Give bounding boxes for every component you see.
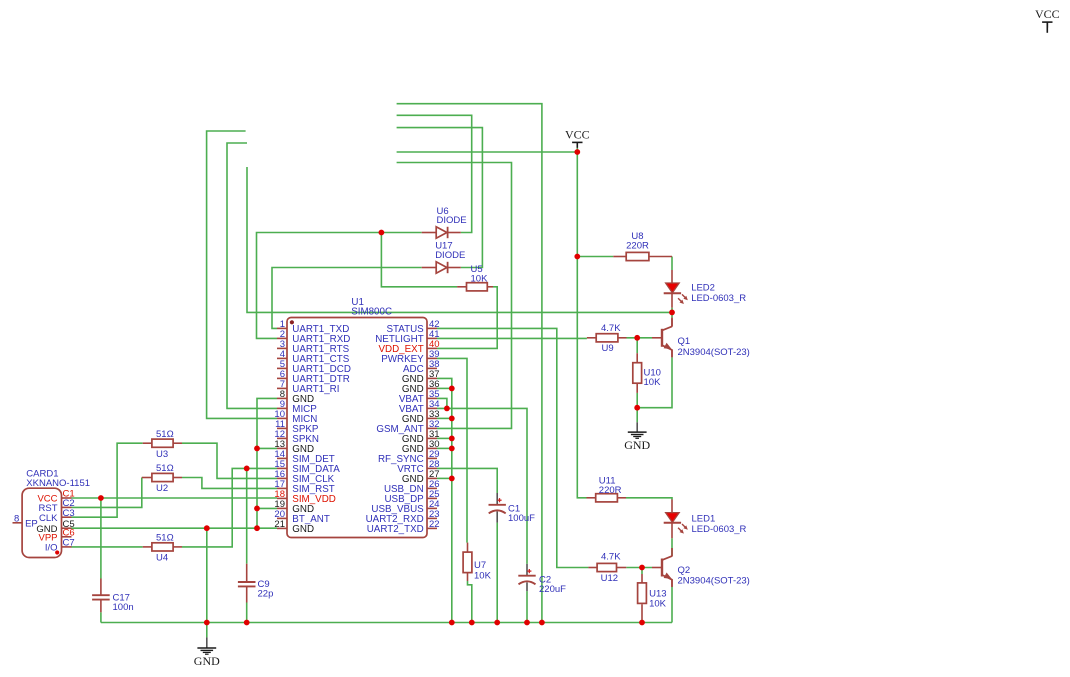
node GND C5 row left bbox=[204, 525, 210, 531]
wire Q2 base node down to U13 bbox=[641, 568, 643, 575]
IC U1 SIM800C body bbox=[287, 318, 427, 538]
transistor Q2 2N3904 bbox=[671, 555, 673, 558]
wire long horizontal net to LED2 cathode bbox=[247, 167, 672, 312]
wire C9 bottom to bus bbox=[246, 603, 248, 623]
U1 pin 38 ADC bbox=[427, 367, 437, 369]
U1 pin 18 SIM_VDD bbox=[277, 497, 287, 499]
wire VCC rail down to U11 row bbox=[577, 148, 586, 498]
wire U10 bottom to emitter node bbox=[636, 393, 638, 408]
wire U17 cathode up to open end H3 bbox=[397, 128, 483, 268]
wire pin13 GND stub bbox=[257, 447, 277, 449]
CARD1 pin C2 RST bbox=[62, 506, 72, 508]
wire ground bus bottom bbox=[101, 622, 672, 624]
svg-text:GND: GND bbox=[194, 654, 220, 668]
U1 pin 12 SPKN bbox=[277, 437, 287, 439]
wire pin30 GND bbox=[437, 447, 452, 449]
node bus/GND chain bbox=[449, 620, 455, 626]
node bus/U13 bbox=[639, 620, 645, 626]
resistor U3 51ohm bbox=[143, 442, 152, 444]
svg-text:VCC: VCC bbox=[565, 127, 590, 141]
U1 pin 32 GSM_ANT bbox=[427, 427, 437, 429]
wire LED1 cathode to Q2 collector bbox=[671, 538, 673, 556]
wire card RST C2 row up to U2 bbox=[72, 478, 142, 508]
CARD1 pin C1 VCC bbox=[62, 497, 72, 499]
wire GND vertical pins 8 13 19 to C5 row bbox=[257, 398, 277, 528]
svg-text:220R: 220R bbox=[626, 241, 649, 252]
connector CARD1 XKNANO-1151 body bbox=[22, 488, 61, 557]
capacitor C17 100n bbox=[100, 579, 102, 596]
svg-text:EP: EP bbox=[25, 518, 38, 529]
wire GND column down to bus and symbol bbox=[206, 528, 208, 622]
node LED2 cathode/Q1 collector bbox=[669, 310, 675, 316]
U1 pin 39 PWRKEY bbox=[427, 357, 437, 359]
wire Q1 emitter to ground node bbox=[637, 357, 672, 408]
wire card I/O C7 row to U4 bbox=[72, 546, 143, 548]
svg-text:22p: 22p bbox=[258, 589, 274, 600]
wire U11 right to LED1 anode bbox=[626, 498, 672, 500]
CARD1 pin C5 GND bbox=[62, 527, 72, 529]
resistor U4 51ohm bbox=[143, 546, 152, 548]
U1 pin 41 NETLIGHT bbox=[427, 337, 437, 339]
node GND pin13 bbox=[254, 446, 260, 452]
U1 pin 27 GND bbox=[427, 477, 437, 479]
CARD1 pin C7 I/O bbox=[62, 546, 72, 548]
wire U2 right to pin17 SIM_RST bbox=[182, 478, 277, 489]
U1 pin 23 UART2_RXD bbox=[427, 517, 437, 519]
svg-text:Q1: Q1 bbox=[678, 336, 691, 347]
resistor U9 4.7K bbox=[587, 337, 596, 339]
wire VBAT rail pin34 to capacitor C2 bbox=[437, 408, 527, 564]
wire pin33 GND bbox=[437, 417, 452, 419]
wire pin41 NETLIGHT to U9 left bbox=[437, 337, 587, 339]
U1 pin 37 GND bbox=[427, 377, 437, 379]
wire U7 bottom jog to ground bus bbox=[468, 581, 472, 623]
svg-text:8: 8 bbox=[14, 513, 19, 524]
wire LED2 cathode to junction to Q1 collector bbox=[671, 308, 673, 318]
U1 pin 13 GND bbox=[277, 447, 287, 449]
wire card VCC C1 row to pin18 SIM_VDD bbox=[72, 497, 278, 499]
svg-text:VCC: VCC bbox=[1035, 7, 1060, 21]
svg-text:220uF: 220uF bbox=[539, 584, 566, 595]
U1 pin 22 UART2_TXD bbox=[427, 527, 437, 529]
svg-text:10K: 10K bbox=[471, 274, 489, 285]
resistor U13 10K bbox=[641, 574, 643, 583]
U1 pin 34 VBAT bbox=[427, 407, 437, 409]
node GND C5 row right bbox=[254, 525, 260, 531]
wire pin39 PWRKEY down to U7 top bbox=[437, 358, 467, 542]
wire U13 bottom to bus bbox=[641, 620, 643, 623]
node bus/H1 bbox=[539, 620, 545, 626]
U1 pin 10 MICN bbox=[277, 417, 287, 419]
svg-text:LED2: LED2 bbox=[691, 283, 715, 294]
wire open end H4 to VCC node bbox=[397, 151, 578, 153]
wire pin36 GND bbox=[437, 387, 452, 389]
diode U17 bbox=[422, 267, 437, 269]
svg-text:U9: U9 bbox=[602, 343, 614, 354]
node GND pin31 bbox=[449, 436, 455, 442]
U1 pin 4 UART1_CTS bbox=[277, 357, 287, 359]
wire pin19 GND stub bbox=[257, 507, 277, 509]
node VCC rail bbox=[574, 149, 580, 155]
CARD1 pin 8 EP bbox=[13, 522, 23, 524]
U1 pin 25 USB_DP bbox=[427, 497, 437, 499]
resistor U12 4.7K bbox=[588, 567, 597, 569]
node VBAT pin34 bbox=[444, 406, 450, 412]
U1 pin 6 UART1_DTR bbox=[277, 377, 287, 379]
node Q2 base/U13 bbox=[639, 565, 645, 571]
U1 pin 31 GND bbox=[427, 437, 437, 439]
wire VCC node to U8 left bbox=[577, 256, 613, 258]
resistor U10 10K bbox=[636, 353, 638, 363]
U1 pin 1 UART1_TXD bbox=[277, 327, 287, 329]
U1 pin 35 VBAT bbox=[427, 397, 437, 399]
svg-text:GND: GND bbox=[624, 438, 650, 452]
svg-text:10K: 10K bbox=[644, 377, 662, 388]
wire pin27 GND bbox=[437, 477, 452, 479]
wire pin28 VRTC down to capacitor C1 bbox=[437, 468, 497, 493]
U1 pin 24 USB_VBUS bbox=[427, 507, 437, 509]
wire branch to resistor U5 left bbox=[381, 233, 457, 287]
U1 pin 11 SPKP bbox=[277, 427, 287, 429]
ground symbol bottom left bbox=[197, 647, 216, 649]
wire UART1_RXD pin2 to diode U6 anode bbox=[257, 233, 422, 339]
svg-text:LED1: LED1 bbox=[692, 514, 716, 525]
U1 pin 28 VRTC bbox=[427, 467, 437, 469]
node GND pin33 bbox=[449, 416, 455, 422]
U1 pin 17 SIM_RST bbox=[277, 487, 287, 489]
resistor U8 220R bbox=[613, 256, 626, 258]
svg-text:10K: 10K bbox=[649, 599, 667, 610]
U1 pin 14 SIM_DET bbox=[277, 457, 287, 459]
svg-text:XKNANO-1151: XKNANO-1151 bbox=[26, 478, 90, 489]
svg-text:51Ω: 51Ω bbox=[156, 463, 174, 474]
wire C17 bottom to bus bbox=[100, 612, 102, 622]
node bus/U7 bbox=[469, 620, 475, 626]
wire ground node down to GND symbol near Q1 bbox=[636, 408, 638, 423]
U1 pin 40 VDD_EXT bbox=[427, 347, 437, 349]
resistor U2 51ohm bbox=[142, 477, 152, 479]
wire UART1_TXD pin1 to diode U17 anode bbox=[272, 268, 422, 329]
node GND pin36 bbox=[449, 386, 455, 392]
node bus/C9 bbox=[244, 620, 250, 626]
resistor U7 10K bbox=[467, 543, 469, 553]
U1 pin 20 BT_ANT bbox=[277, 517, 287, 519]
ground symbol near Q1 bbox=[628, 431, 647, 433]
svg-text:U4: U4 bbox=[156, 553, 168, 564]
svg-text:100uF: 100uF bbox=[508, 513, 535, 524]
wire pin31 GND bbox=[437, 437, 452, 439]
node Q1 emitter/U10/GND bbox=[634, 405, 640, 411]
U1 pin 26 USB_DN bbox=[427, 487, 437, 489]
LED LED1 LED-0603_R bbox=[671, 500, 673, 513]
capacitor C2 220uF polarized bbox=[526, 564, 528, 576]
CARD1 pin C3 CLK bbox=[62, 516, 72, 518]
wire U5 right to pin40 VDD_EXT bbox=[437, 287, 497, 349]
svg-text:4.7K: 4.7K bbox=[601, 323, 621, 334]
svg-text:22: 22 bbox=[429, 519, 440, 530]
svg-text:UART2_TXD: UART2_TXD bbox=[367, 524, 424, 535]
U1 pin 7 UART1_RI bbox=[277, 387, 287, 389]
resistor U5 10K bbox=[457, 286, 466, 288]
wire U3 right to pin16 SIM_CLK bbox=[182, 443, 277, 478]
svg-text:4.7K: 4.7K bbox=[601, 552, 621, 563]
node VCC/U8 bbox=[574, 254, 580, 260]
U1 pin 8 GND bbox=[277, 397, 287, 399]
svg-text:LED-0603_R: LED-0603_R bbox=[692, 524, 747, 535]
wire U6 cathode up to open end H2 bbox=[397, 115, 472, 232]
wire Q1 base node down to U10 top bbox=[636, 338, 638, 353]
wire U12 right to Q2 base bbox=[626, 567, 652, 569]
node UART1_RXD/U5 bbox=[379, 230, 385, 236]
wire C2 bottom to ground bus bbox=[526, 591, 528, 622]
svg-text:DIODE: DIODE bbox=[437, 215, 467, 226]
node bus/GND symbol bbox=[204, 620, 210, 626]
U1 pin 3 UART1_RTS bbox=[277, 347, 287, 349]
diode U6 bbox=[422, 232, 437, 234]
U1 pin 36 GND bbox=[427, 387, 437, 389]
wire open stub net1 top-left bbox=[207, 131, 277, 418]
wire open end H5 to pin32 GSM_ANT bbox=[397, 163, 512, 429]
wire Q2 emitter down to bus bbox=[671, 587, 673, 623]
svg-text:Q2: Q2 bbox=[678, 565, 691, 576]
node bus/C2 bbox=[524, 620, 530, 626]
node GND pin30 bbox=[449, 446, 455, 452]
svg-text:100n: 100n bbox=[113, 602, 134, 613]
capacitor C9 22p bbox=[246, 564, 248, 582]
svg-text:51Ω: 51Ω bbox=[156, 533, 174, 544]
node VCC-card/C17 bbox=[98, 495, 104, 501]
svg-text:U2: U2 bbox=[156, 483, 168, 494]
U1 pin 19 GND bbox=[277, 507, 287, 509]
svg-text:2N3904(SOT-23): 2N3904(SOT-23) bbox=[678, 347, 750, 358]
svg-text:C7: C7 bbox=[63, 538, 75, 549]
svg-text:GND: GND bbox=[292, 524, 314, 535]
U1 pin 33 GND bbox=[427, 417, 437, 419]
node SIM_DATA/C9 bbox=[244, 466, 250, 472]
wire GND pins chain pin37 down to bus bbox=[437, 378, 452, 622]
U1 pin 42 STATUS bbox=[427, 327, 437, 329]
U1 pin 9 MICP bbox=[277, 407, 287, 409]
node Q1 base/U10 bbox=[634, 335, 640, 341]
U1 pin 30 GND bbox=[427, 447, 437, 449]
wire U4 right up to pin15 SIM_DATA bbox=[182, 468, 277, 547]
wire C9 column from SIM_DATA net bbox=[246, 468, 248, 563]
U1 pin 15 SIM_DATA bbox=[277, 467, 287, 469]
U1 pin 21 GND bbox=[277, 527, 287, 529]
svg-text:10K: 10K bbox=[474, 570, 492, 581]
U1 pin 16 SIM_CLK bbox=[277, 477, 287, 479]
resistor U11 220R bbox=[587, 497, 596, 499]
capacitor C1 100uF polarized bbox=[496, 493, 498, 505]
wire open end H1 down to ground bus bbox=[397, 104, 542, 623]
wire card CLK C3 row up to U3 bbox=[72, 443, 143, 517]
svg-text:2N3904(SOT-23): 2N3904(SOT-23) bbox=[678, 576, 750, 587]
CARD1 pin C6 VPP bbox=[62, 536, 72, 538]
U1 pin 5 UART1_DCD bbox=[277, 367, 287, 369]
svg-text:DIODE: DIODE bbox=[435, 250, 465, 261]
LED LED2 LED-0603_R bbox=[671, 270, 673, 283]
transistor Q1 2N3904 bbox=[671, 318, 673, 327]
wire open stub net2 top-left bbox=[227, 143, 277, 408]
svg-text:51Ω: 51Ω bbox=[156, 429, 174, 440]
svg-text:LED-0603_R: LED-0603_R bbox=[691, 293, 746, 304]
svg-text:I/O: I/O bbox=[45, 543, 58, 554]
wire U8 right corner down to LED2 anode bbox=[671, 257, 673, 271]
wire pin35 VBAT corner bbox=[437, 398, 447, 408]
svg-text:SIM800C: SIM800C bbox=[351, 307, 392, 318]
wire C17 column VCC row to cap bbox=[100, 498, 102, 579]
svg-text:CLK: CLK bbox=[39, 513, 58, 524]
svg-text:21: 21 bbox=[274, 519, 285, 530]
U1 pin 29 RF_SYNC bbox=[427, 457, 437, 459]
svg-text:U12: U12 bbox=[601, 573, 618, 584]
wire U9 right to Q1 base bbox=[627, 337, 653, 339]
wire pin42 STATUS down to U12 row bbox=[437, 328, 588, 567]
node bus/C1 bbox=[494, 620, 500, 626]
node GND pin27 bbox=[449, 476, 455, 482]
svg-text:220R: 220R bbox=[599, 485, 622, 496]
wire card GND C5 row to pin21 GND bbox=[72, 527, 278, 529]
svg-text:C3: C3 bbox=[63, 508, 75, 519]
U1 pin 2 UART1_RXD bbox=[277, 337, 287, 339]
svg-text:U3: U3 bbox=[156, 449, 168, 460]
wire C1 bottom to ground bus bbox=[496, 523, 498, 623]
node GND pin19 bbox=[254, 506, 260, 512]
